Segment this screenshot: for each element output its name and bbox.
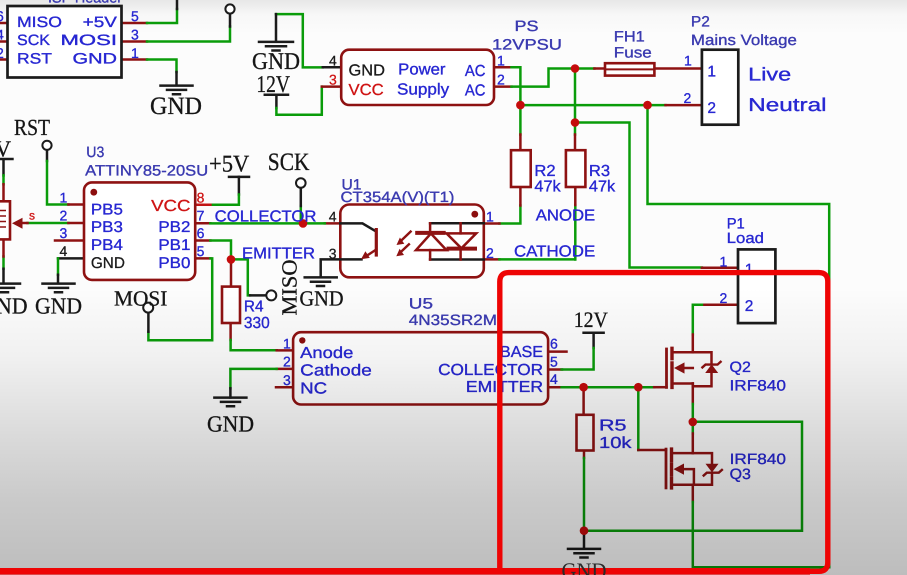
svg-text:GND: GND — [562, 559, 607, 575]
